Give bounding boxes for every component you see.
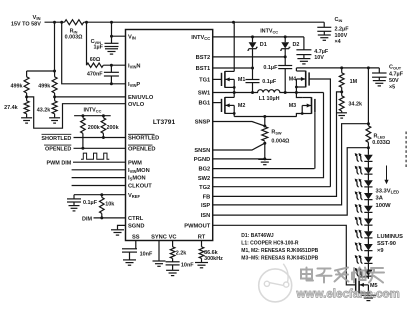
svg-text:15V TO 58V: 15V TO 58V bbox=[11, 22, 41, 28]
wire M5 source to gnd bbox=[367, 293, 369, 295]
svg-text:VREF: VREF bbox=[128, 193, 140, 199]
diode D2 BAT46WJ bbox=[280, 37, 299, 57]
svg-text:IVINP: IVINP bbox=[128, 82, 140, 88]
ground (CVIN) bbox=[105, 49, 118, 54]
svg-text:INTVCC: INTVCC bbox=[260, 28, 278, 34]
svg-text:0.1µF: 0.1µF bbox=[83, 200, 98, 206]
svg-text:ISMON: ISMON bbox=[128, 176, 146, 182]
svg-text:43.2k: 43.2k bbox=[37, 107, 52, 113]
svg-text:RLED: RLED bbox=[374, 134, 386, 140]
svg-text:ISP: ISP bbox=[201, 203, 210, 209]
ground (27.4k) bbox=[21, 118, 32, 123]
transistor M3 RJK0451DPB bbox=[289, 97, 315, 115]
svg-text:DIM: DIM bbox=[82, 216, 92, 222]
label LED current arrow bbox=[384, 166, 388, 185]
svg-text:LUMINUS: LUMINUS bbox=[377, 234, 403, 240]
wire M1 drain to rail bbox=[233, 22, 235, 71]
resistor 499k (right) bbox=[38, 71, 57, 97]
label component notes bbox=[241, 233, 318, 262]
svg-text:M3–M5: RENESAS RJK0451DPB: M3–M5: RENESAS RJK0451DPB bbox=[241, 256, 318, 262]
svg-text:499k: 499k bbox=[38, 84, 51, 90]
svg-text:FB: FB bbox=[203, 195, 211, 201]
svg-text:VIN: VIN bbox=[128, 34, 136, 40]
resistor RT 86.6k 300kHz bbox=[199, 241, 223, 263]
wire UVLO divider trunk bbox=[27, 22, 56, 72]
resistor 499k (left) bbox=[10, 71, 29, 97]
wire TG2 bbox=[213, 186, 331, 188]
ground (43.2k) bbox=[49, 118, 60, 123]
svg-text:0.004Ω: 0.004Ω bbox=[271, 139, 290, 145]
svg-text:VC: VC bbox=[169, 234, 177, 240]
svg-text:INTVCC: INTVCC bbox=[191, 35, 210, 41]
svg-text:300kHz: 300kHz bbox=[204, 256, 223, 262]
wire VIN rail (RIN to CIN) bbox=[84, 21, 325, 24]
capacitor CVIN 1µF bbox=[91, 36, 119, 50]
svg-text:IVINN: IVINN bbox=[128, 63, 141, 69]
capacitor 10nF (VC) bbox=[166, 258, 195, 270]
resistor 27.4k bbox=[4, 97, 29, 118]
svg-text:1µF: 1µF bbox=[94, 45, 104, 51]
svg-text:www.elecfans.com: www.elecfans.com bbox=[296, 287, 400, 300]
svg-text:D2: D2 bbox=[293, 42, 300, 48]
wire M5 drain to LED string bbox=[367, 275, 369, 277]
label LED type bbox=[377, 234, 403, 254]
svg-text:PWM: PWM bbox=[128, 160, 142, 166]
wire VOUT rail bbox=[296, 66, 379, 69]
svg-text:L1 10µH: L1 10µH bbox=[259, 96, 280, 102]
svg-text:0.003Ω: 0.003Ω bbox=[65, 35, 83, 41]
capacitor 0.1µF (VREF) bbox=[67, 195, 98, 206]
resistor 34.2k bbox=[339, 92, 363, 113]
transistor M2 RJK0651DPB bbox=[222, 97, 246, 115]
wire VREF bbox=[74, 193, 126, 196]
ground (PGND / RSW) bbox=[258, 159, 271, 164]
svg-text:2.2µF: 2.2µF bbox=[335, 26, 350, 32]
wire BST2 bbox=[213, 55, 287, 58]
wire M3 drain to SW2 bbox=[296, 93, 302, 98]
svg-text:×9: ×9 bbox=[377, 248, 384, 254]
svg-text:SGND: SGND bbox=[128, 224, 144, 230]
svg-text:SNSN: SNSN bbox=[194, 148, 210, 154]
ground (VC) bbox=[166, 270, 179, 275]
svg-text:×4: ×4 bbox=[335, 39, 341, 45]
label LED output ratings bbox=[376, 188, 400, 209]
inductor L1 10µH bbox=[253, 90, 297, 102]
svg-text:4.7µF: 4.7µF bbox=[314, 49, 329, 55]
wire CLKOUT stub bbox=[72, 185, 126, 187]
wire EN/UVLO bbox=[53, 95, 125, 98]
ground (COUT) bbox=[373, 77, 386, 86]
svg-text:M1, M2: RENESAS RJK0651DPB: M1, M2: RENESAS RJK0651DPB bbox=[241, 248, 318, 254]
wire VIN rail (input to RIN) bbox=[45, 21, 65, 24]
ground (34.2k) bbox=[336, 113, 347, 118]
resistor 1M bbox=[339, 68, 357, 92]
svg-text:27.4k: 27.4k bbox=[4, 105, 19, 111]
ground (INTVCC cap) bbox=[297, 55, 310, 64]
svg-text:1M: 1M bbox=[350, 79, 358, 85]
ground (SGND) bbox=[111, 230, 124, 235]
ground (SS cap) bbox=[123, 260, 136, 265]
diode D1 BAT46WJ bbox=[247, 37, 266, 68]
svg-text:SYNC: SYNC bbox=[151, 234, 167, 240]
capacitor 4.7µF 10V (INTVCC) bbox=[296, 37, 328, 61]
capacitor COUT 4.7µF 50V x5 bbox=[372, 65, 404, 91]
wire BG2 bbox=[213, 168, 315, 170]
wire 60Ω branch bbox=[86, 22, 88, 65]
wire M3 source to sense bus bbox=[296, 114, 302, 117]
wire OPENLED bbox=[44, 145, 126, 153]
svg-text:×5: ×5 bbox=[389, 85, 395, 91]
svg-text:470nF: 470nF bbox=[87, 72, 103, 78]
svg-text:D1: D1 bbox=[260, 42, 267, 48]
svg-text:TG2: TG2 bbox=[199, 185, 210, 191]
wire FB link bbox=[213, 90, 344, 196]
wire BST1 bbox=[213, 67, 254, 70]
svg-text:10k: 10k bbox=[105, 201, 115, 207]
svg-text:CTRL: CTRL bbox=[128, 216, 144, 222]
svg-text:SS: SS bbox=[132, 234, 140, 240]
resistor 2.2k (VC) bbox=[170, 241, 187, 259]
svg-text:499k: 499k bbox=[10, 84, 23, 90]
svg-text:ISN: ISN bbox=[201, 213, 210, 219]
svg-text:86.6k: 86.6k bbox=[204, 250, 219, 256]
svg-text:50V: 50V bbox=[389, 78, 399, 84]
transistor M1 RJK0651DPB bbox=[222, 71, 246, 89]
svg-text:34.2k: 34.2k bbox=[348, 102, 363, 108]
svg-text:CLKOUT: CLKOUT bbox=[128, 184, 152, 190]
wire INTVCC rail bbox=[213, 28, 304, 38]
svg-text:0.033Ω: 0.033Ω bbox=[372, 140, 391, 146]
svg-text:10nF: 10nF bbox=[140, 251, 153, 257]
svg-text:SNSP: SNSP bbox=[195, 120, 211, 126]
op-amp U1 LT3791 controller box bbox=[126, 30, 213, 241]
wire SW2 to switch node bbox=[213, 93, 324, 178]
resistor 60Ω bbox=[87, 57, 104, 67]
wire SYNC to gnd bbox=[158, 241, 160, 261]
diode LED string LUMINUS SST-90 x9 bbox=[355, 148, 373, 279]
svg-text:10nF: 10nF bbox=[181, 262, 194, 268]
wire PGND bbox=[213, 157, 267, 160]
node INTVCC (pullups) bbox=[74, 107, 111, 117]
svg-text:PGND: PGND bbox=[194, 157, 210, 163]
waveform PWM pulses bbox=[81, 153, 109, 159]
resistor RSW 0.004Ω bbox=[262, 117, 290, 159]
svg-text:M4: M4 bbox=[289, 77, 297, 83]
svg-text:3A: 3A bbox=[376, 196, 384, 202]
svg-text:M3: M3 bbox=[289, 103, 297, 109]
wire PWMOUT to M5 gate bbox=[213, 225, 356, 285]
svg-text:0.1µF: 0.1µF bbox=[263, 65, 278, 71]
wire PWM input bbox=[47, 161, 126, 167]
resistor RIN 0.003Ω bbox=[65, 20, 84, 41]
svg-text:OPENLED: OPENLED bbox=[45, 147, 71, 153]
transistor M4 RJK0451DPB bbox=[289, 71, 309, 89]
wire LED+ trunk bbox=[367, 68, 370, 125]
svg-text:SW2: SW2 bbox=[198, 176, 210, 182]
wire M4 source to SW2 bbox=[284, 87, 298, 94]
svg-text:10V: 10V bbox=[314, 55, 324, 61]
watermark logo and text bbox=[259, 264, 400, 302]
svg-text:PWMOUT: PWMOUT bbox=[184, 223, 210, 229]
wire SGND bbox=[118, 225, 126, 229]
wire DIM to CTRL bbox=[82, 216, 125, 222]
svg-text:CIN: CIN bbox=[335, 17, 343, 23]
svg-text:BST2: BST2 bbox=[196, 55, 211, 61]
svg-text:OPENLED: OPENLED bbox=[128, 146, 156, 152]
svg-text:TG1: TG1 bbox=[199, 78, 210, 84]
label figure tag bbox=[371, 292, 391, 296]
wire M4 gate to TG2 bbox=[309, 79, 330, 187]
wire TG1 bbox=[213, 78, 222, 80]
resistor 10k bbox=[100, 195, 116, 218]
ground (SYNC) bbox=[153, 261, 166, 266]
svg-text:RT: RT bbox=[198, 234, 206, 240]
svg-text:SHORTLED: SHORTLED bbox=[41, 136, 71, 142]
svg-text:SW1: SW1 bbox=[198, 91, 210, 97]
resistor 200k (OPENLED pullup) bbox=[81, 116, 101, 149]
svg-text:BST1: BST1 bbox=[196, 66, 211, 72]
svg-text:LT3791: LT3791 bbox=[153, 119, 176, 126]
svg-text:IVINMON: IVINMON bbox=[128, 168, 150, 174]
svg-text:SHORTLED: SHORTLED bbox=[128, 136, 159, 142]
ground (VREF cap) bbox=[69, 202, 80, 211]
wire M1 source to SW1 bbox=[233, 87, 235, 92]
svg-text:SST-90: SST-90 bbox=[377, 241, 396, 247]
svg-text:M2: M2 bbox=[238, 103, 246, 109]
svg-text:200k: 200k bbox=[88, 125, 101, 131]
wire M4 drain to VOUT rail bbox=[295, 68, 297, 71]
svg-text:200k: 200k bbox=[107, 125, 120, 131]
capacitor 0.1µF (BST2-SW2) bbox=[263, 57, 292, 93]
ground (RT) bbox=[195, 263, 208, 268]
svg-text:2.2k: 2.2k bbox=[176, 251, 188, 257]
wire IVINN bbox=[103, 64, 125, 67]
svg-text:0.1µF: 0.1µF bbox=[262, 79, 277, 85]
svg-text:EN/UVLO: EN/UVLO bbox=[128, 95, 154, 101]
svg-text:VIN: VIN bbox=[32, 15, 40, 21]
svg-text:100W: 100W bbox=[376, 203, 392, 209]
wire ISMON stub bbox=[72, 177, 126, 179]
node VIN input label bbox=[11, 15, 41, 27]
wire M2 source to sense bus bbox=[233, 113, 235, 116]
svg-text:PWM DIM: PWM DIM bbox=[47, 161, 72, 167]
wire source bus bbox=[234, 115, 296, 118]
pin labels U1 right side bbox=[184, 35, 210, 229]
capacitor CIN 2.2µF 100V x4 bbox=[317, 17, 349, 45]
svg-text:COUT: COUT bbox=[389, 65, 402, 71]
resistor RLED 0.033Ω bbox=[366, 124, 391, 148]
wire IVINMON stub bbox=[72, 169, 126, 171]
wire SNSN bbox=[213, 142, 267, 150]
svg-text:RSW: RSW bbox=[271, 129, 282, 135]
capacitor 470nF bbox=[87, 65, 119, 84]
svg-text:INTVCC: INTVCC bbox=[84, 107, 102, 113]
wire ISP bbox=[213, 124, 369, 205]
wire SHORTLED bbox=[41, 134, 125, 142]
wire VIN pin feed bbox=[110, 22, 126, 38]
transistor M5 RJK0451DPB bbox=[356, 277, 378, 295]
svg-text:60Ω: 60Ω bbox=[90, 57, 101, 63]
wire BG1 bbox=[213, 102, 222, 104]
ground (M5) bbox=[361, 295, 376, 300]
svg-text:BG1: BG1 bbox=[198, 101, 210, 107]
resistor 200k (SHORTLED pullup) bbox=[101, 116, 119, 138]
svg-text:M1: M1 bbox=[238, 77, 246, 83]
ground (CIN) bbox=[318, 31, 331, 40]
capacitor 10nF (SS) bbox=[122, 241, 153, 260]
svg-text:OVLO: OVLO bbox=[128, 102, 145, 108]
watermark right edge tile marks bbox=[405, 132, 407, 168]
wire M3 gate to BG2 bbox=[314, 112, 316, 169]
pin labels U1 left side bbox=[128, 34, 159, 229]
resistor 43.2k bbox=[37, 97, 57, 118]
capacitor 0.1µF (BST1-SW1) bbox=[246, 68, 277, 93]
svg-text:4.7µF: 4.7µF bbox=[389, 72, 404, 78]
wire M2 drain to SW1 bbox=[233, 93, 235, 98]
svg-text:D1: BAT46WJ: D1: BAT46WJ bbox=[241, 233, 274, 239]
wire SNSP bbox=[213, 122, 267, 128]
svg-text:BG2: BG2 bbox=[198, 167, 210, 173]
wire SW1 bbox=[213, 91, 254, 94]
svg-text:L1: COOPER HC9-100-R: L1: COOPER HC9-100-R bbox=[241, 241, 299, 247]
svg-text:33.3VLED: 33.3VLED bbox=[376, 188, 400, 194]
pin labels U1 bottom row bbox=[132, 234, 206, 240]
wire ISN bbox=[213, 146, 370, 215]
wire OVLO bbox=[25, 95, 125, 128]
wire IVINP feed bbox=[62, 22, 126, 85]
